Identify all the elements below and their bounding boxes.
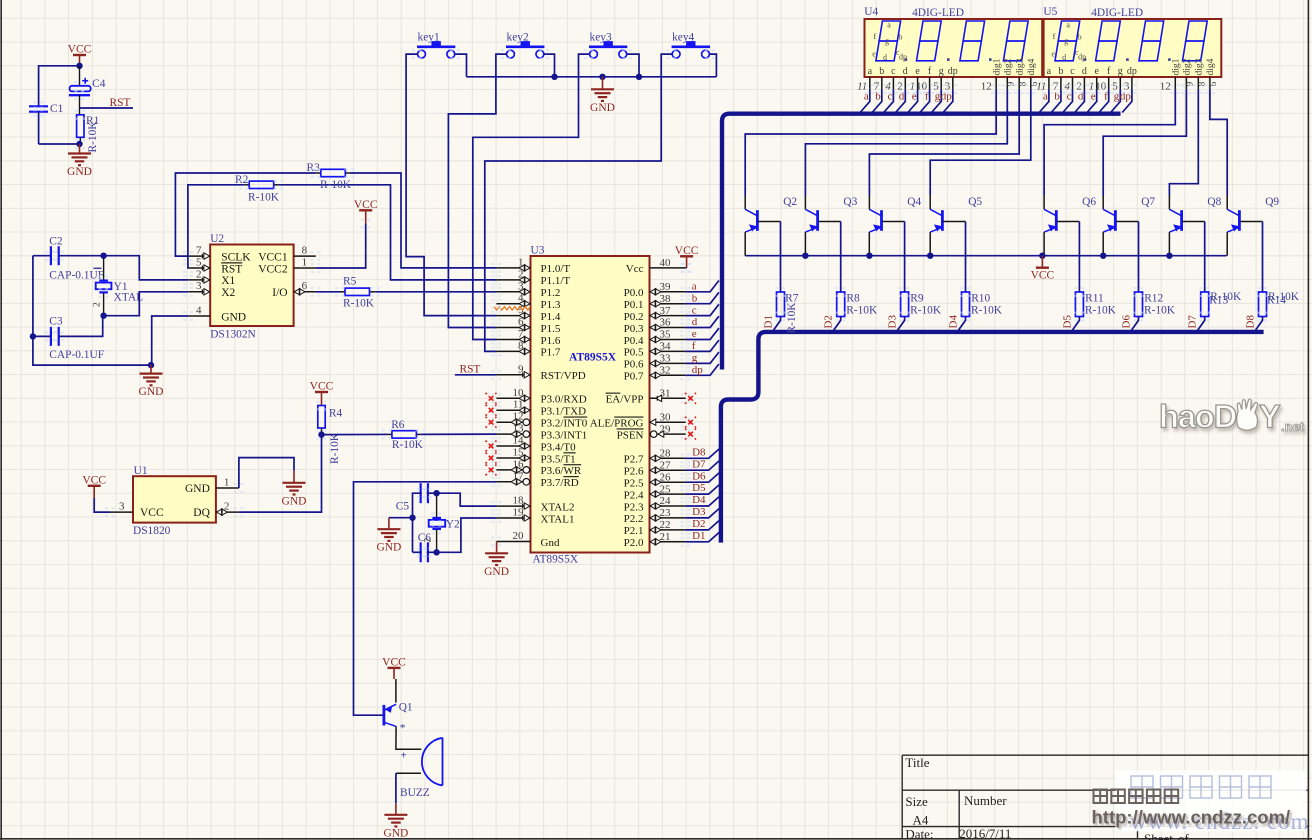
svg-text:SCLK: SCLK: [221, 251, 251, 263]
U4 segment pins: [857, 77, 953, 113]
U3 pin 24 P2.3: [624, 495, 686, 513]
svg-text:Y2: Y2: [446, 519, 460, 531]
svg-text:GND: GND: [383, 827, 408, 839]
wire key1 right to ground rail: [455, 54, 467, 77]
wire dig pin to Q4: [869, 89, 1019, 195]
wire ground rail: [467, 76, 717, 78]
junction: [318, 431, 324, 437]
transistor Q5: [930, 196, 982, 232]
svg-text:24: 24: [660, 495, 672, 507]
svg-text:D5: D5: [1061, 315, 1073, 329]
svg-text:R-10K: R-10K: [910, 305, 942, 317]
svg-text:P2.6: P2.6: [624, 466, 644, 478]
svg-text:9: 9: [518, 363, 524, 375]
svg-text:b: b: [1058, 66, 1063, 77]
svg-text:R14: R14: [1267, 295, 1286, 307]
U4 digit 2: [917, 21, 942, 61]
svg-text:DQ: DQ: [193, 507, 210, 519]
svg-text:P3.6/WR: P3.6/WR: [541, 465, 582, 477]
transistor Q7: [1103, 196, 1155, 232]
svg-text:11: 11: [513, 399, 524, 411]
U2 pin 3 X2: [188, 280, 235, 299]
svg-text:R12: R12: [1144, 293, 1163, 305]
svg-text:ALE/PROG: ALE/PROG: [590, 418, 644, 430]
U2 pin 6 I/O: [272, 280, 316, 299]
svg-text:VCC: VCC: [82, 474, 106, 486]
wire P2 net D3: [686, 509, 720, 518]
ground GND (keys): [602, 77, 604, 90]
svg-text:RST/VPD: RST/VPD: [541, 370, 586, 382]
pushbutton key4: [672, 32, 710, 58]
svg-text:30: 30: [660, 411, 672, 423]
junction: [551, 74, 557, 80]
U2 pin 1 VCC2: [258, 256, 316, 275]
svg-text:2: 2: [518, 268, 524, 280]
svg-text:a: a: [1066, 21, 1070, 30]
svg-text:14: 14: [513, 435, 525, 447]
wire: [59, 255, 104, 257]
transistor Q6: [1044, 196, 1096, 232]
svg-text:25: 25: [660, 483, 672, 495]
svg-text:R-10K: R-10K: [87, 121, 99, 153]
svg-text:6: 6: [302, 280, 308, 292]
svg-text:a: a: [1047, 66, 1052, 77]
capacitor C1: [29, 103, 64, 144]
svg-text:e: e: [1094, 66, 1099, 77]
capacitor C2: [49, 235, 104, 281]
svg-text:P0.6: P0.6: [624, 359, 644, 371]
U3 pin 2 P1.1/T: [496, 268, 570, 287]
U3 pin 19 XTAL1: [496, 507, 574, 526]
svg-text:5: 5: [196, 256, 202, 268]
U5 pin names a-dp: [1047, 66, 1137, 77]
junction: [599, 74, 605, 80]
wire Vcc pin40: [685, 267, 688, 269]
svg-text:P0.4: P0.4: [624, 335, 644, 347]
svg-text:http://www.cndzz.com/: http://www.cndzz.com/: [1092, 807, 1291, 828]
svg-text:R9: R9: [910, 293, 924, 305]
wire dig pin to Q6: [1044, 89, 1175, 195]
svg-text:2: 2: [224, 501, 230, 513]
wire base to R8: [840, 222, 842, 293]
svg-text:dig4: dig4: [1027, 58, 1037, 75]
resistor R5: [340, 276, 375, 310]
U1 pin 1 GND: [185, 476, 239, 494]
svg-text:16: 16: [513, 458, 525, 470]
junction: [433, 549, 439, 555]
svg-text:d: d: [692, 316, 698, 328]
wire: [33, 336, 151, 365]
U3 pin 8 P1.7: [496, 340, 560, 359]
svg-text:dig3: dig3: [1195, 58, 1205, 75]
svg-text:dp: dp: [1127, 66, 1137, 77]
svg-text:b: b: [899, 33, 903, 42]
svg-text:Vcc: Vcc: [626, 263, 644, 275]
svg-text:haoD: haoD: [1159, 399, 1237, 435]
svg-text:D7: D7: [1187, 315, 1199, 329]
svg-text:e: e: [1051, 50, 1055, 59]
svg-text:a: a: [887, 21, 891, 30]
pushbutton key3: [589, 32, 627, 58]
no-connect marks P3 pins: [486, 393, 497, 404]
svg-text:Q2: Q2: [783, 196, 797, 208]
wire P0 net b: [686, 292, 719, 303]
svg-text:Q9: Q9: [1265, 196, 1279, 208]
svg-text:P1.6: P1.6: [541, 335, 561, 347]
resistor R7: [777, 292, 799, 334]
svg-text:P3.2/INT0: P3.2/INT0: [541, 418, 588, 430]
wire buzzer top lead: [420, 748, 423, 750]
wire Y1 to X1: [104, 256, 189, 280]
svg-text:U1: U1: [134, 465, 148, 477]
svg-text:39: 39: [660, 281, 672, 293]
svg-text:D5: D5: [692, 482, 706, 494]
wire P0 net dp: [686, 364, 719, 375]
wire base to R11: [1078, 222, 1080, 293]
wire Q6 emitter: [1043, 232, 1045, 256]
wire base to R12: [1138, 222, 1140, 293]
svg-text:EA/VPP: EA/VPP: [606, 394, 644, 406]
svg-text:P3.3/INT1: P3.3/INT1: [541, 429, 588, 441]
svg-text:+: +: [401, 750, 407, 762]
wire P2 net D5: [686, 485, 720, 494]
svg-text:4: 4: [518, 292, 524, 304]
svg-text:12: 12: [1160, 81, 1171, 93]
U3 pin 7 P1.6: [496, 328, 560, 347]
svg-text:8: 8: [302, 245, 308, 257]
wire VCC to U2 VCC2: [316, 223, 366, 268]
svg-text:g: g: [1118, 66, 1123, 77]
watermark white panel: [1115, 770, 1306, 831]
svg-text:Q7: Q7: [1141, 196, 1155, 208]
svg-text:GND: GND: [484, 566, 509, 578]
U3 pin 11 P3.1/TXD: [496, 399, 586, 418]
U4 digit 4: [1003, 21, 1028, 61]
pushbutton key2: [506, 32, 544, 58]
U3 pin 15 P3.5/T1: [496, 447, 575, 466]
wire dig pin to Q8: [1169, 89, 1198, 195]
U3 pin 17 P3.7/RD: [496, 470, 578, 489]
svg-text:6: 6: [518, 316, 524, 328]
wire R2 to U2 RST: [188, 185, 244, 268]
junction: [409, 515, 415, 521]
power VCC (U2): [359, 209, 372, 211]
wire dig pin to Q2: [745, 89, 996, 195]
svg-text:VCC1: VCC1: [258, 251, 288, 263]
svg-text:I/O: I/O: [272, 287, 287, 299]
svg-text:P1.0/T: P1.0/T: [541, 263, 571, 275]
power VCC (U1): [88, 485, 101, 487]
svg-text:P3.7/RD: P3.7/RD: [541, 477, 579, 489]
wire P2 net D1: [686, 532, 720, 541]
svg-text:C3: C3: [49, 316, 63, 328]
junction: [148, 362, 154, 368]
U5 segment pins: [1036, 77, 1132, 113]
svg-text:Q5: Q5: [968, 196, 982, 208]
U5 segment letters: [1051, 21, 1086, 63]
IC U1 DS1820 body: [133, 465, 216, 537]
crystal Y2: [429, 493, 460, 552]
svg-text:RST: RST: [460, 363, 481, 375]
svg-text:P2.4: P2.4: [624, 489, 644, 501]
svg-text:2: 2: [424, 538, 434, 543]
U5 digit 4: [1183, 21, 1208, 61]
svg-text:AT89S5X: AT89S5X: [569, 352, 617, 364]
U4 digit 1: [876, 21, 901, 61]
wire R13 to bus, net D7: [1197, 317, 1205, 332]
U1 pin 2 DQ: [193, 501, 239, 519]
power VCC (reset circuit): [73, 54, 86, 56]
svg-text:40: 40: [660, 257, 672, 269]
wire base to R13: [1204, 222, 1206, 293]
svg-text:36: 36: [660, 317, 672, 329]
wire R9 to bus, net D3: [896, 317, 904, 332]
U5 digit 3: [1139, 21, 1164, 61]
svg-text:8: 8: [518, 340, 524, 352]
svg-text:P1.2: P1.2: [541, 287, 561, 299]
svg-text:X2: X2: [221, 287, 235, 299]
junction: [433, 490, 439, 496]
junction rail dots: [802, 253, 808, 259]
svg-text:R-10K: R-10K: [248, 192, 280, 204]
svg-text:dig3: dig3: [1015, 58, 1025, 75]
svg-text:21: 21: [660, 531, 671, 543]
power VCC (Q1): [388, 667, 401, 669]
wire: [33, 255, 51, 257]
svg-text:P1.4: P1.4: [541, 311, 561, 323]
svg-text:P1.5: P1.5: [541, 323, 561, 335]
wire key4 to P1.7: [485, 54, 672, 351]
svg-text:C2: C2: [49, 235, 63, 247]
ground GND (U2): [150, 365, 152, 374]
wire Q2 emitter: [744, 232, 746, 256]
resistor R10: [962, 292, 1003, 317]
svg-text:X1: X1: [221, 275, 235, 287]
junction: [636, 74, 642, 80]
U3 pin 12 P3.2/INT0: [496, 411, 587, 430]
svg-text:10: 10: [513, 387, 525, 399]
U3 pin 23 P2.2: [624, 507, 686, 525]
svg-text:4DIG-LED: 4DIG-LED: [1091, 7, 1143, 19]
svg-text:R-10K: R-10K: [320, 179, 352, 191]
svg-text:g: g: [885, 37, 889, 46]
U5 dig pins: [1160, 77, 1219, 93]
svg-text:GND: GND: [139, 386, 164, 398]
unconnected squiggle P1.3: [494, 307, 530, 310]
ground GND (buzzer): [395, 803, 397, 815]
wire Y2 to XTAL1: [437, 518, 497, 552]
pushbutton key1: [417, 32, 455, 58]
U3 pin 20 Gnd: [496, 530, 560, 549]
connection snap marks: [33, 49, 1267, 557]
wire U1 GND: [239, 458, 294, 488]
svg-text:.net: .net: [1281, 419, 1305, 434]
wire base to R7: [780, 222, 782, 293]
svg-text:R-10K: R-10K: [392, 439, 424, 451]
wire VCC to Q1 emitter: [395, 679, 397, 703]
U3 pin 30 ALE/PROG: [590, 411, 686, 429]
transistor Q9: [1227, 196, 1279, 232]
svg-text:1: 1: [518, 256, 524, 268]
svg-text:dp: dp: [899, 53, 907, 62]
U4 digit 3: [960, 21, 985, 61]
wire dig pin to Q7: [1103, 89, 1186, 195]
U3 pin 29 PSEN: [617, 423, 686, 441]
resistor R11: [1075, 292, 1116, 317]
U3 pin 21 P2.0: [624, 531, 686, 549]
svg-text:R-10K: R-10K: [1085, 305, 1117, 317]
U3 pin 3 P1.2: [496, 280, 560, 299]
svg-text:R8: R8: [846, 293, 860, 305]
resistor R13: [1201, 291, 1242, 317]
svg-text:D4: D4: [948, 315, 960, 329]
U4 dig pins: [981, 77, 1040, 93]
svg-text:key1: key1: [418, 32, 440, 44]
wire Q2 base: [758, 221, 781, 223]
U3 pin 22 P2.1: [624, 519, 686, 537]
wire Y2 to XTAL2: [437, 493, 497, 506]
svg-text:g: g: [1064, 37, 1068, 46]
svg-text:4DIG-LED: 4DIG-LED: [912, 7, 964, 19]
ground GND (Y2): [388, 518, 390, 530]
U4 segment letters: [872, 21, 907, 63]
buzzer BUZZ: [400, 738, 443, 799]
junction: [100, 313, 106, 319]
svg-text:17: 17: [513, 470, 525, 482]
title block: [902, 755, 1308, 840]
crystal Y1: [93, 256, 144, 316]
wire Q5 base: [943, 221, 966, 223]
svg-text:*: *: [400, 723, 406, 735]
transistor Q2: [745, 196, 797, 232]
wire Q9 base: [1240, 221, 1263, 223]
svg-text:R13: R13: [1209, 295, 1228, 307]
U3 pin 33 P0.6: [624, 353, 686, 371]
U2 pin 4 GND: [188, 304, 246, 323]
svg-text:R11: R11: [1085, 293, 1104, 305]
svg-text:GND: GND: [221, 311, 246, 323]
svg-text:D6: D6: [1121, 315, 1133, 329]
U2 pin 8 VCC1: [258, 245, 316, 264]
wire P2 net D4: [686, 497, 720, 506]
svg-text:2: 2: [93, 302, 103, 307]
svg-text:GND: GND: [590, 102, 615, 114]
wire Q7 base: [1116, 221, 1139, 223]
svg-text:D2: D2: [692, 518, 705, 530]
svg-text:C5: C5: [396, 501, 410, 513]
wire P2 net D6: [686, 473, 720, 482]
svg-text:7: 7: [196, 245, 202, 257]
watermark haoDIY logo: [1159, 399, 1305, 435]
svg-text:2016/7/11: 2016/7/11: [959, 826, 1011, 840]
svg-text:2: 2: [196, 268, 202, 280]
display U5 4DIG-LED body: [1043, 6, 1221, 77]
svg-text:P2.1: P2.1: [624, 525, 644, 537]
svg-text:31: 31: [660, 388, 671, 400]
wire R8 to bus, net D2: [833, 317, 841, 332]
U3 pin 1 P1.0/T: [496, 256, 570, 275]
wire P0 net c: [686, 304, 719, 315]
wire key2 to P1.5: [448, 54, 506, 327]
svg-text:P2.7: P2.7: [624, 454, 644, 466]
svg-text:13: 13: [513, 423, 525, 435]
svg-text:P3.4/T0: P3.4/T0: [541, 441, 577, 453]
svg-text:12: 12: [981, 81, 992, 93]
wire: [32, 256, 34, 337]
svg-text:f: f: [873, 32, 876, 41]
power VCC (emitter rail): [1036, 267, 1049, 269]
resistor R2: [235, 174, 280, 203]
U3 pin 36 P0.3: [624, 317, 686, 335]
wire Q3 base: [818, 221, 841, 223]
svg-text:d: d: [883, 53, 887, 62]
svg-text:P1.7: P1.7: [541, 347, 561, 359]
watermark gray CJK: [1094, 790, 1179, 804]
svg-text:P0.1: P0.1: [624, 299, 644, 311]
svg-text:dp: dp: [692, 364, 704, 376]
U2 pin 5 RST: [188, 256, 242, 275]
svg-text:D6: D6: [692, 470, 706, 482]
svg-text:g: g: [692, 352, 698, 364]
svg-text:27: 27: [660, 459, 672, 471]
svg-text:dig2: dig2: [1004, 58, 1014, 75]
svg-text:d: d: [903, 66, 908, 77]
svg-text:U4: U4: [864, 6, 878, 18]
resistor R9: [901, 292, 942, 317]
U4 pin names a-dp: [868, 66, 958, 77]
junction: [76, 141, 82, 147]
no-connect marks EA ALE PSEN: [685, 393, 696, 404]
svg-text:key4: key4: [672, 32, 694, 44]
svg-text:C4: C4: [92, 78, 106, 90]
svg-text:e: e: [872, 50, 876, 59]
ground GND (U3 pin20): [496, 541, 498, 544]
wire U2 I/O to R5: [316, 291, 340, 293]
wire R4/DQ to R6: [322, 433, 387, 435]
transistor Q1: [384, 702, 413, 735]
svg-text:D3: D3: [887, 315, 899, 329]
svg-text:20: 20: [513, 530, 525, 542]
svg-text:D1: D1: [692, 530, 705, 542]
svg-text:12: 12: [513, 411, 524, 423]
wire Y1 to X2: [104, 292, 189, 316]
resistor R1: [77, 115, 100, 153]
svg-text:Gnd: Gnd: [541, 537, 560, 549]
power VCC (U3 pin40): [680, 255, 693, 257]
wire: [33, 335, 51, 337]
wire P2 net D2: [686, 521, 720, 530]
bus D1-D8 digit bus: [721, 332, 1264, 543]
U3 pin 28 P2.7: [624, 448, 686, 466]
U3 pin 18 XTAL2: [496, 495, 574, 514]
wire R10 to bus, net D4: [957, 317, 965, 332]
svg-text:a: a: [868, 66, 873, 77]
wire dig pin to Q9: [1210, 89, 1227, 195]
U3 pin 35 P0.4: [624, 329, 686, 347]
wire R7 to bus, net D1: [772, 317, 780, 332]
svg-text:VCC: VCC: [310, 381, 334, 393]
svg-text:VCC: VCC: [382, 656, 406, 668]
wire P2 net D8: [686, 449, 720, 458]
svg-text:26: 26: [660, 471, 672, 483]
svg-text:35: 35: [660, 329, 672, 341]
svg-text:7: 7: [518, 328, 524, 340]
svg-text:CAP-0.1UF: CAP-0.1UF: [49, 349, 104, 361]
transistor Q8: [1169, 196, 1221, 232]
resistor R14: [1259, 291, 1300, 317]
svg-text:XTAL2: XTAL2: [541, 501, 575, 513]
svg-text:23: 23: [660, 507, 672, 519]
